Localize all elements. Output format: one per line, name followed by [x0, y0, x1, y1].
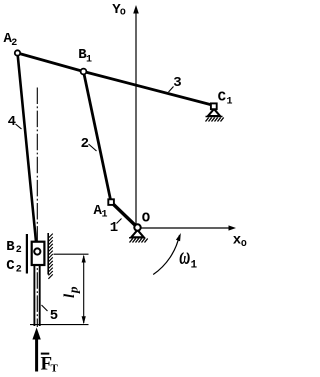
svg-text:5: 5	[50, 308, 58, 324]
rod 5 left edge	[33, 266, 35, 326]
link 1 (crank A1-O)	[111, 202, 138, 228]
svg-text:C: C	[218, 90, 227, 106]
dimension line lp	[83, 256, 85, 323]
svg-text:1: 1	[191, 260, 198, 272]
joint circle A2	[15, 50, 20, 55]
svg-text:2: 2	[11, 38, 17, 49]
slider block B2/C2	[32, 242, 45, 265]
ground support at O (triangle)	[131, 230, 144, 237]
leader for label 2	[89, 144, 97, 151]
ground base line at C1	[206, 116, 223, 118]
svg-text:1: 1	[102, 210, 108, 221]
rod 5 right edge	[39, 266, 41, 326]
omega1 arc arrow	[153, 235, 179, 275]
force arrow FT head	[32, 328, 40, 340]
svg-text:C: C	[6, 258, 15, 274]
svg-text:O: O	[142, 211, 150, 227]
ground hatching at C1	[206, 118, 224, 122]
force arrow FT shaft	[35, 338, 38, 372]
dimension top extension line	[54, 253, 89, 255]
svg-text:2: 2	[81, 136, 89, 152]
dimension arrowhead top	[82, 255, 86, 263]
joint circle B1	[81, 69, 87, 75]
joint square A1	[108, 199, 114, 205]
leader for label 4	[16, 124, 22, 129]
omega1 arc arrowhead	[176, 233, 181, 241]
ground support at C1 (triangle)	[208, 109, 220, 116]
ground hatching at O	[130, 239, 148, 243]
X0 axis	[141, 227, 230, 229]
leader for label 1	[117, 219, 122, 224]
X0 axis arrowhead	[229, 225, 237, 230]
joint square C1	[211, 103, 217, 109]
svg-text:O: O	[241, 238, 247, 249]
svg-text:1: 1	[227, 97, 233, 108]
link 4 (A2-B2 rod)	[18, 53, 38, 250]
dimension arrowhead bottom	[82, 316, 86, 324]
svg-text:p: p	[66, 286, 81, 294]
svg-text:T: T	[51, 363, 59, 375]
ground base line at O	[129, 237, 145, 239]
link 3 (A2-B1-C1 bar)	[18, 53, 215, 106]
svg-text:2: 2	[16, 245, 22, 256]
Y0 axis	[135, 8, 137, 224]
label FT with overbar	[41, 353, 50, 355]
label lp (rotated)	[62, 286, 81, 298]
svg-text:3: 3	[173, 75, 181, 91]
svg-text:ω: ω	[179, 243, 190, 269]
link 2 (coupler B1-A1)	[84, 72, 112, 203]
svg-text:1: 1	[86, 55, 92, 66]
Y0 axis arrowhead	[133, 5, 139, 14]
svg-text:B: B	[6, 239, 15, 255]
hatching on right wall	[48, 234, 52, 279]
slider guide right wall	[47, 233, 49, 275]
joint circle B2/C2 in slider	[34, 248, 40, 254]
leader for label 5	[42, 305, 48, 311]
centerline (dash-dot) of slider guide and rod 5	[36, 88, 38, 328]
leader for label 3	[169, 87, 174, 93]
joint circle O	[134, 224, 140, 230]
svg-text:O: O	[120, 6, 126, 17]
dimension bottom extension line	[30, 324, 89, 326]
svg-text:2: 2	[16, 265, 22, 276]
slider guide left wall	[26, 234, 28, 274]
svg-text:4: 4	[8, 114, 16, 130]
